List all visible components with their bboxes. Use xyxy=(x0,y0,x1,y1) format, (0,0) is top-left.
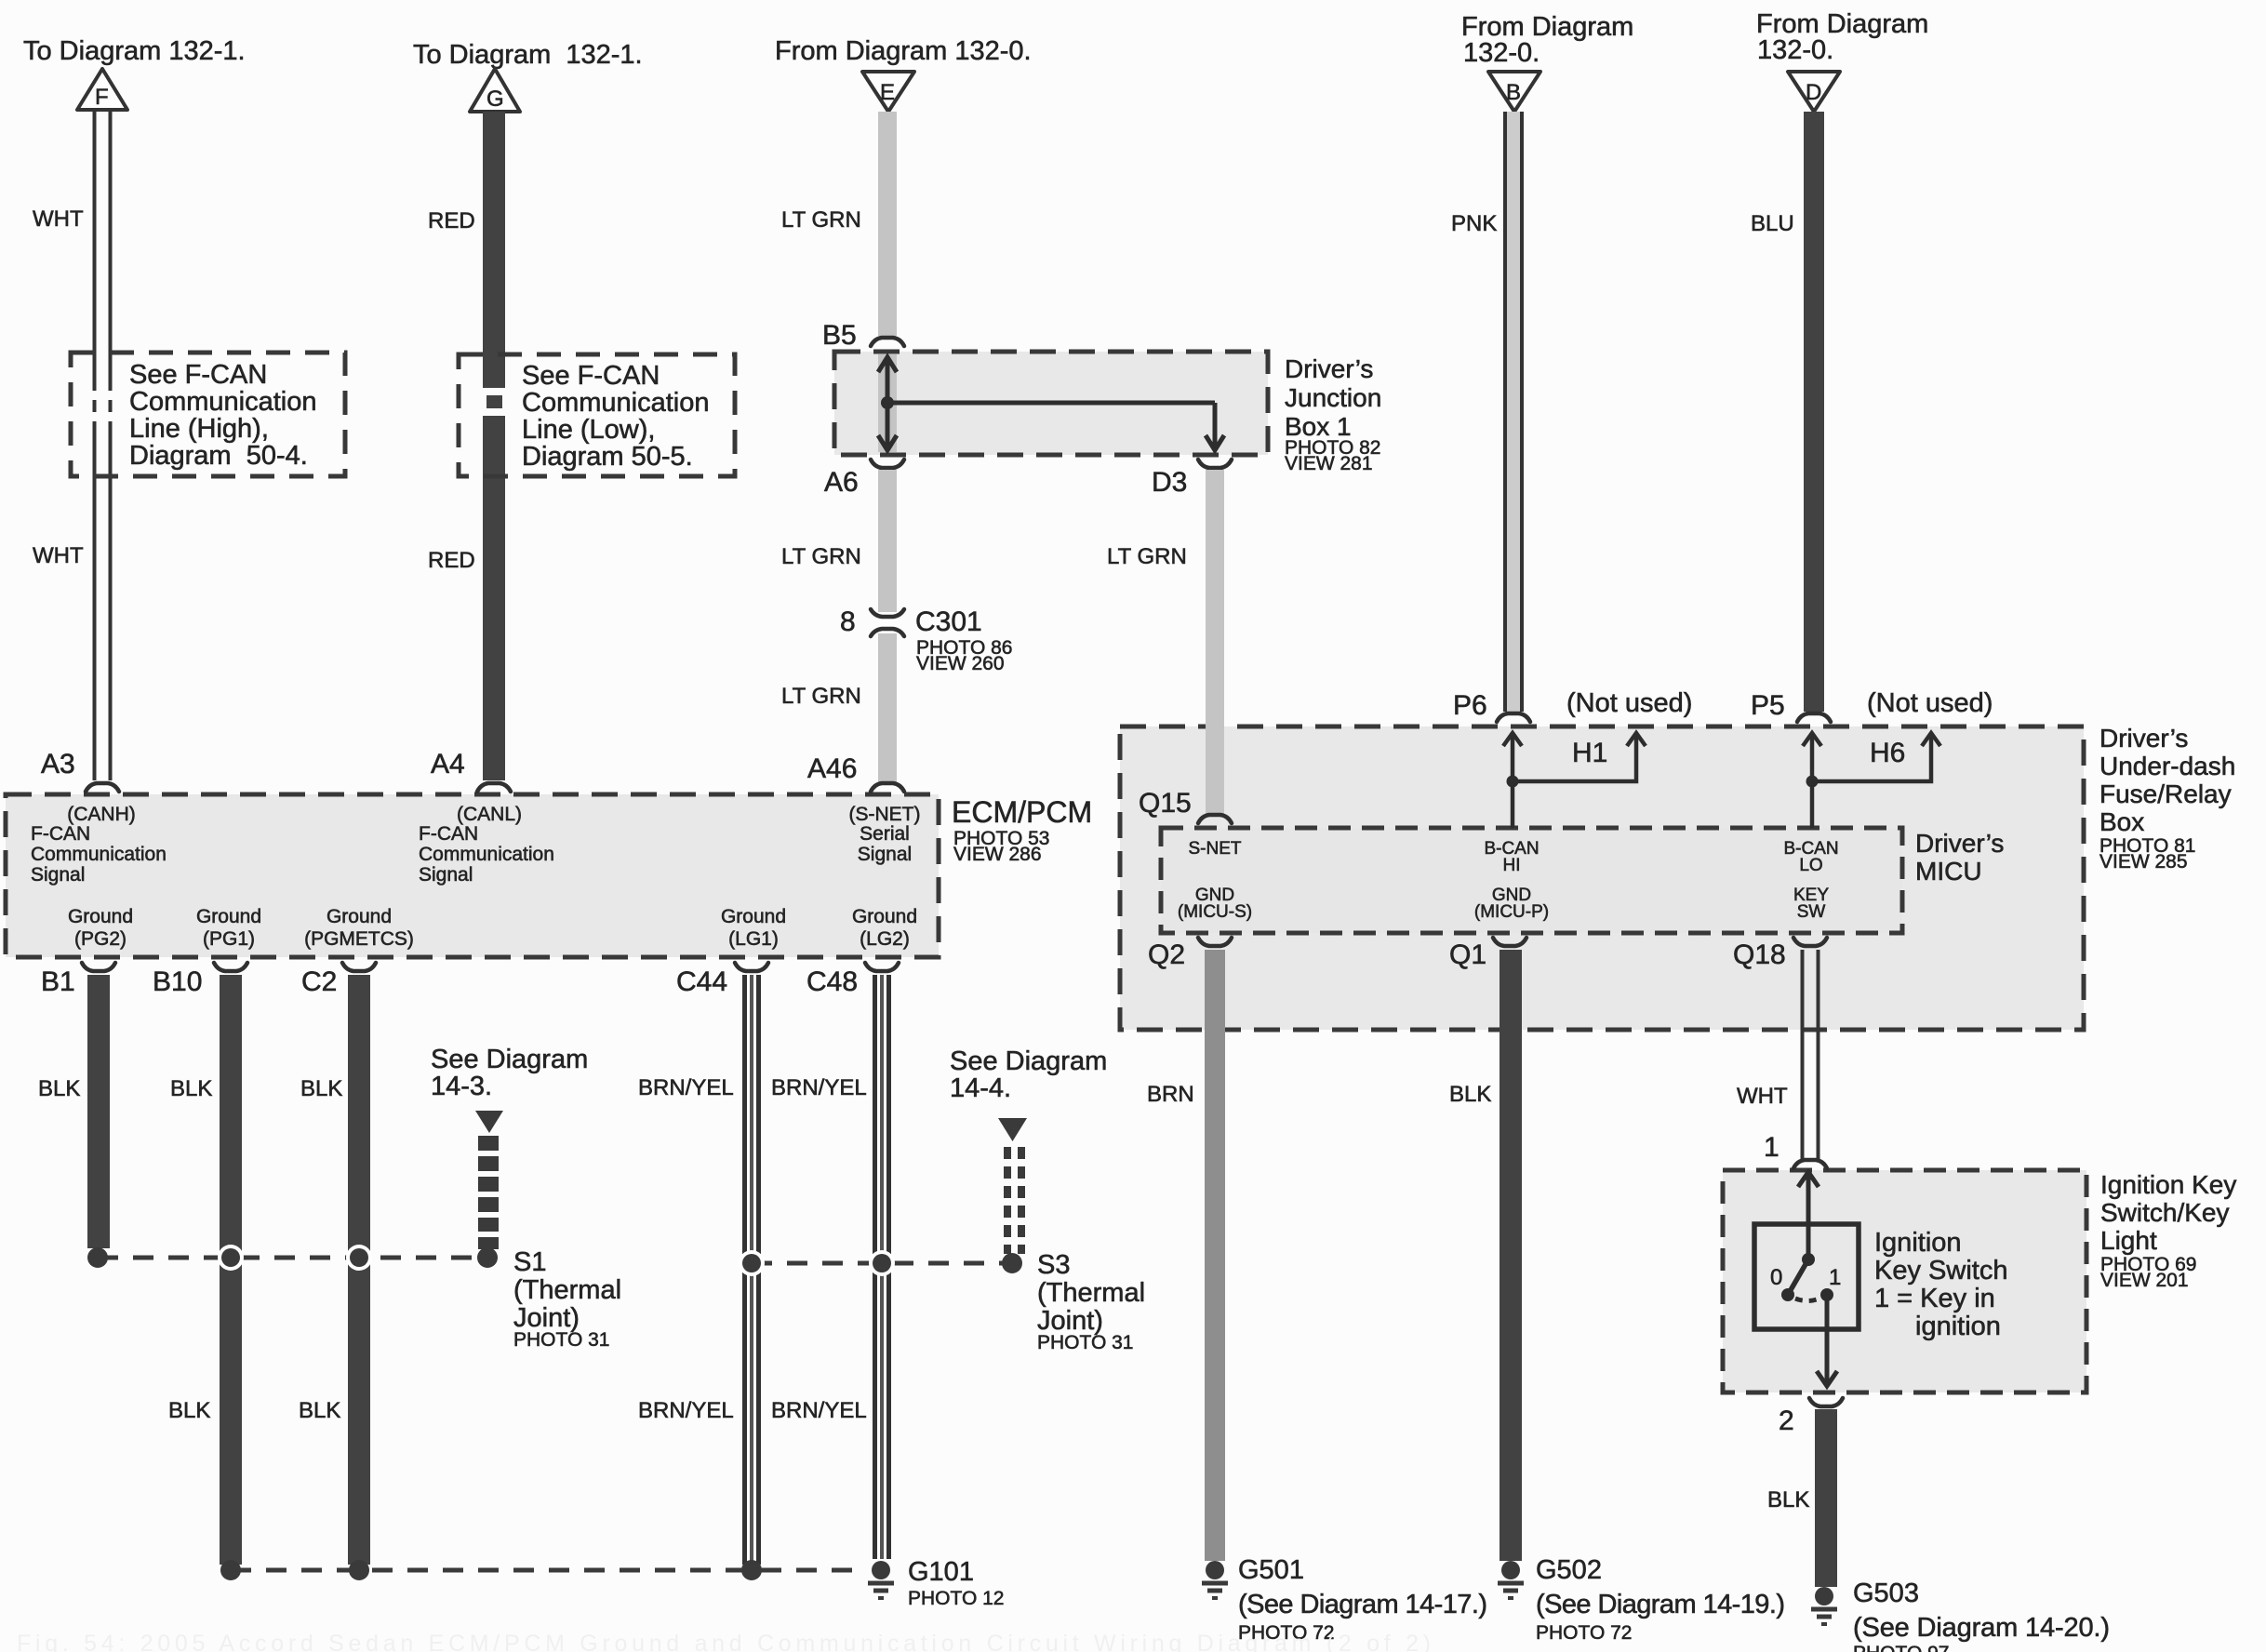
svg-text:Q15: Q15 xyxy=(1139,788,1192,819)
svg-text:(MICU-P): (MICU-P) xyxy=(1474,902,1549,922)
svg-text:WHT: WHT xyxy=(33,543,84,568)
ECM internal label Ground PGMETCS xyxy=(304,906,414,950)
pin A4 xyxy=(431,749,511,792)
pin B1 xyxy=(41,963,115,997)
svg-text:Driver’s: Driver’s xyxy=(2099,724,2188,753)
svg-text:C301: C301 xyxy=(915,606,982,637)
svg-text:A4: A4 xyxy=(431,749,465,779)
pin 1 (ignition) xyxy=(1764,1132,1827,1168)
svg-text:SW: SW xyxy=(1797,902,1826,922)
svg-text:Ground: Ground xyxy=(721,906,786,927)
svg-text:PHOTO 12: PHOTO 12 xyxy=(908,1588,1004,1609)
svg-text:P5: P5 xyxy=(1751,690,1785,721)
thermal joint S1 xyxy=(475,1111,621,1351)
svg-text:BRN: BRN xyxy=(1147,1082,1194,1107)
wire BLU D to P5 xyxy=(1751,112,1824,712)
svg-text:WHT: WHT xyxy=(33,206,84,232)
svg-text:BRN/YEL: BRN/YEL xyxy=(638,1398,734,1423)
connector B from Diagram 132-0 xyxy=(1461,12,1633,112)
svg-text:G503: G503 xyxy=(1853,1579,1919,1608)
wire LT GRN E to B5 xyxy=(781,112,897,336)
svg-text:Communication: Communication xyxy=(31,844,167,865)
svg-text:Communication: Communication xyxy=(129,387,316,417)
pin 2 (ignition) xyxy=(1779,1398,1843,1436)
svg-text:PHOTO 31: PHOTO 31 xyxy=(1037,1332,1133,1353)
svg-text:(Not used): (Not used) xyxy=(1566,688,1692,718)
svg-text:(PGMETCS): (PGMETCS) xyxy=(304,928,414,950)
svg-text:Communication: Communication xyxy=(522,388,709,418)
svg-text:ignition: ignition xyxy=(1915,1312,2001,1341)
connector C301 pin 8 xyxy=(840,606,1012,674)
svg-text:BLU: BLU xyxy=(1751,211,1794,236)
svg-text:Q2: Q2 xyxy=(1148,939,1185,970)
ECM internal label CANL xyxy=(419,804,554,886)
svg-text:F-CAN: F-CAN xyxy=(419,823,478,845)
svg-text:Signal: Signal xyxy=(419,864,473,886)
svg-text:Ground: Ground xyxy=(327,906,392,927)
pin C2 xyxy=(301,963,376,997)
svg-text:D: D xyxy=(1806,80,1821,105)
ECM internal label S-NET serial signal xyxy=(849,804,921,865)
connector G to Diagram 132-1 xyxy=(413,40,643,112)
svg-text:(PG1): (PG1) xyxy=(203,928,255,950)
svg-text:LT GRN: LT GRN xyxy=(781,544,861,569)
MICU internal label GND MICU-S xyxy=(1178,886,1252,922)
pin P5 xyxy=(1751,688,1993,722)
pin Q2 xyxy=(1148,938,1232,970)
wire RED G to A4 xyxy=(428,112,505,780)
wire BLK C2 xyxy=(299,975,370,1565)
svg-text:(MICU-S): (MICU-S) xyxy=(1178,902,1252,922)
svg-text:VIEW 285: VIEW 285 xyxy=(2099,851,2188,873)
svg-text:Signal: Signal xyxy=(858,844,912,865)
pin B10 xyxy=(153,963,247,997)
svg-text:1: 1 xyxy=(1764,1132,1779,1163)
svg-text:Fuse/Relay: Fuse/Relay xyxy=(2099,779,2232,808)
wire BRN/YEL C48 xyxy=(771,975,889,1559)
note F-CAN Communication Line (High) xyxy=(71,353,345,476)
svg-text:See F-CAN: See F-CAN xyxy=(522,361,660,391)
wire BRN Q2 to G501 xyxy=(1147,950,1225,1561)
ECM internal label Ground PG1 xyxy=(196,906,261,950)
ground G502 xyxy=(1498,1555,1785,1644)
svg-text:LT GRN: LT GRN xyxy=(1107,544,1187,569)
wire LT GRN D3 to Q15 xyxy=(1107,470,1224,814)
thermal joint S3 xyxy=(998,1118,1145,1353)
svg-text:H1: H1 xyxy=(1572,738,1607,768)
svg-text:8: 8 xyxy=(840,606,856,637)
svg-text:BLK: BLK xyxy=(1449,1082,1491,1107)
svg-text:Switch/Key: Switch/Key xyxy=(2100,1198,2230,1227)
svg-text:Communication: Communication xyxy=(419,844,554,865)
svg-text:VIEW 201: VIEW 201 xyxy=(2100,1270,2189,1291)
svg-text:Q18: Q18 xyxy=(1733,939,1786,970)
svg-text:Serial: Serial xyxy=(860,823,910,845)
svg-text:E: E xyxy=(880,80,895,105)
svg-text:(See Diagram 14-19.): (See Diagram 14-19.) xyxy=(1536,1590,1785,1619)
ground G101 xyxy=(868,1557,1004,1609)
svg-text:H6: H6 xyxy=(1870,738,1905,768)
wire WHT Q18 to ignition pin 1 xyxy=(1737,950,1819,1159)
ECM/PCM box xyxy=(6,794,1092,957)
ignition key switch xyxy=(1754,1172,2007,1386)
thermal joint S3 note: See Diagram 14-4. xyxy=(950,1046,1107,1103)
svg-text:B: B xyxy=(1506,80,1521,105)
svg-text:(CANL): (CANL) xyxy=(457,804,522,825)
pin A46 xyxy=(807,753,904,792)
svg-text:(See Diagram 14-20.): (See Diagram 14-20.) xyxy=(1853,1613,2110,1643)
svg-text:Q1: Q1 xyxy=(1449,939,1486,970)
MICU box: Driver's MICU xyxy=(1161,828,2004,933)
ground bus dashed G101 row xyxy=(220,1560,865,1580)
svg-text:A46: A46 xyxy=(807,753,857,784)
svg-text:WHT: WHT xyxy=(1737,1084,1788,1109)
svg-text:C44: C44 xyxy=(676,966,727,997)
MICU internal label B-CAN LO xyxy=(1783,839,1838,875)
svg-text:BRN/YEL: BRN/YEL xyxy=(771,1075,867,1100)
pin Q18 xyxy=(1733,938,1827,970)
svg-text:LT GRN: LT GRN xyxy=(781,684,861,709)
svg-text:G501: G501 xyxy=(1238,1555,1304,1585)
svg-text:132-0.: 132-0. xyxy=(1463,38,1540,68)
ECM internal label Ground PG2 xyxy=(68,906,133,950)
svg-text:LO: LO xyxy=(1799,856,1822,875)
svg-text:Junction: Junction xyxy=(1285,383,1381,412)
svg-text:Diagram 50-5.: Diagram 50-5. xyxy=(522,442,693,472)
svg-text:VIEW 281: VIEW 281 xyxy=(1285,453,1373,474)
svg-text:Light: Light xyxy=(2100,1226,2157,1255)
svg-text:To Diagram 132-1.: To Diagram 132-1. xyxy=(413,40,643,70)
svg-text:Box: Box xyxy=(2099,807,2144,836)
svg-text:BLK: BLK xyxy=(38,1076,80,1101)
svg-text:PHOTO 97: PHOTO 97 xyxy=(1853,1643,1949,1652)
svg-text:BLK: BLK xyxy=(170,1076,212,1101)
svg-text:B10: B10 xyxy=(153,966,202,997)
ECM internal label Ground LG2 xyxy=(852,906,917,950)
svg-text:B1: B1 xyxy=(41,966,75,997)
wire LT GRN C301 to A46 xyxy=(781,633,897,784)
pin A6 xyxy=(824,460,904,498)
ignition box: Ignition Key Switch/Key Light xyxy=(1723,1170,2236,1392)
svg-text:BLK: BLK xyxy=(300,1076,342,1101)
svg-text:Line (High),: Line (High), xyxy=(129,414,269,444)
thermal joint S1 note: See Diagram 14-3. xyxy=(431,1045,588,1101)
net H6 arrows xyxy=(1803,733,1940,828)
svg-text:RED: RED xyxy=(428,548,475,573)
svg-text:See Diagram: See Diagram xyxy=(431,1045,588,1074)
connector E from Diagram 132-0 xyxy=(775,36,1032,112)
svg-text:(S-NET): (S-NET) xyxy=(849,804,921,825)
pin C48 xyxy=(806,963,899,997)
svg-text:BRN/YEL: BRN/YEL xyxy=(638,1075,734,1100)
svg-text:ECM/PCM: ECM/PCM xyxy=(952,795,1092,829)
svg-text:PHOTO 31: PHOTO 31 xyxy=(513,1329,609,1351)
svg-text:S-NET: S-NET xyxy=(1189,839,1242,859)
connector D from Diagram 132-0 xyxy=(1756,9,1928,112)
net H1 arrows xyxy=(1503,733,1646,828)
svg-text:A3: A3 xyxy=(41,749,75,779)
svg-text:Ignition: Ignition xyxy=(1874,1228,1962,1258)
svg-text:See Diagram: See Diagram xyxy=(950,1046,1107,1076)
svg-text:PNK: PNK xyxy=(1451,211,1497,236)
ground G501 xyxy=(1202,1555,1487,1644)
wire LT GRN A6 to C301 xyxy=(781,470,897,612)
svg-text:Driver’s: Driver’s xyxy=(1285,354,1373,383)
junction box: Driver's Junction Box 1 xyxy=(834,352,1381,474)
ground G503 xyxy=(1811,1579,2110,1652)
svg-text:C48: C48 xyxy=(806,966,858,997)
svg-text:1: 1 xyxy=(1829,1265,1841,1290)
svg-text:F: F xyxy=(95,85,109,110)
wire BRN/YEL C44 xyxy=(638,975,759,1565)
svg-text:Diagram 50-4.: Diagram 50-4. xyxy=(129,441,308,471)
MICU internal label B-CAN HI xyxy=(1484,839,1539,875)
svg-text:P6: P6 xyxy=(1453,690,1487,721)
svg-text:Driver’s: Driver’s xyxy=(1915,829,2004,858)
connector F to Diagram 132-1 xyxy=(23,36,246,110)
ground bus dashed S1 row xyxy=(87,1245,498,1271)
ECM internal label CANH xyxy=(31,804,167,886)
pin Q15 xyxy=(1139,788,1232,823)
svg-text:(See Diagram 14-17.): (See Diagram 14-17.) xyxy=(1238,1590,1487,1619)
svg-text:BLK: BLK xyxy=(299,1398,340,1423)
svg-text:From Diagram 132-0.: From Diagram 132-0. xyxy=(775,36,1032,66)
svg-text:(CANH): (CANH) xyxy=(67,804,136,825)
svg-text:S3: S3 xyxy=(1037,1250,1070,1280)
MICU internal label GND MICU-P xyxy=(1474,886,1549,922)
pin B5 xyxy=(822,320,904,351)
svg-text:F-CAN: F-CAN xyxy=(31,823,90,845)
pin D3 xyxy=(1152,460,1232,498)
svg-text:(LG2): (LG2) xyxy=(860,928,910,950)
wire BLK B1 xyxy=(38,975,110,1248)
wire BLK ignition pin 2 to G503 xyxy=(1767,1409,1837,1587)
svg-text:Ground: Ground xyxy=(68,906,133,927)
svg-text:14-3.: 14-3. xyxy=(431,1072,492,1101)
svg-text:A6: A6 xyxy=(824,467,859,498)
svg-text:Ground: Ground xyxy=(852,906,917,927)
svg-text:D3: D3 xyxy=(1152,467,1187,498)
wire BLK Q1 to G502 xyxy=(1449,950,1522,1561)
svg-text:G502: G502 xyxy=(1536,1555,1602,1585)
svg-text:S1: S1 xyxy=(513,1247,546,1277)
svg-text:G: G xyxy=(487,87,504,112)
svg-text:(PG2): (PG2) xyxy=(74,928,127,950)
svg-text:VIEW 260: VIEW 260 xyxy=(916,653,1005,674)
svg-text:B5: B5 xyxy=(822,320,857,351)
svg-text:2: 2 xyxy=(1779,1406,1794,1436)
pin Q1 xyxy=(1449,938,1526,970)
svg-text:MICU: MICU xyxy=(1915,857,1982,886)
svg-text:VIEW 286: VIEW 286 xyxy=(953,844,1042,865)
svg-text:RED: RED xyxy=(428,208,475,233)
MICU internal label KEY SW xyxy=(1793,886,1829,922)
ECM internal label Ground LG1 xyxy=(721,906,786,950)
svg-text:BLK: BLK xyxy=(1767,1487,1809,1512)
wire BLK B10 xyxy=(168,975,242,1565)
svg-text:(Thermal: (Thermal xyxy=(513,1275,621,1305)
svg-text:(Not used): (Not used) xyxy=(1867,688,1993,718)
svg-text:(Thermal: (Thermal xyxy=(1037,1278,1145,1308)
svg-text:C2: C2 xyxy=(301,966,337,997)
svg-text:LT GRN: LT GRN xyxy=(781,207,861,233)
ground bus dashed S3 row xyxy=(739,1250,1022,1276)
svg-text:(LG1): (LG1) xyxy=(728,928,779,950)
pin A3 xyxy=(41,749,119,792)
svg-text:Line (Low),: Line (Low), xyxy=(522,415,655,445)
pin C44 xyxy=(676,963,768,997)
wire PNK B to P6 xyxy=(1451,112,1524,712)
svg-text:14-4.: 14-4. xyxy=(950,1073,1011,1103)
fuse box: Driver's Under-dash Fuse/Relay Box xyxy=(1120,724,2235,1030)
svg-text:BLK: BLK xyxy=(168,1398,210,1423)
svg-text:Ignition Key: Ignition Key xyxy=(2100,1170,2236,1199)
svg-text:BRN/YEL: BRN/YEL xyxy=(771,1398,867,1423)
svg-text:Signal: Signal xyxy=(31,864,85,886)
svg-text:Ground: Ground xyxy=(196,906,261,927)
svg-text:G101: G101 xyxy=(908,1557,974,1587)
svg-text:Under-dash: Under-dash xyxy=(2099,752,2235,780)
svg-text:Fig. 54: 2005 Accord Sedan ECM: Fig. 54: 2005 Accord Sedan ECM/PCM Groun… xyxy=(17,1631,1431,1652)
svg-text:Key Switch: Key Switch xyxy=(1874,1256,2007,1286)
svg-text:See F-CAN: See F-CAN xyxy=(129,360,267,390)
wire WHT F to A3 xyxy=(33,110,111,780)
pin P6 xyxy=(1453,688,1692,722)
svg-text:PHOTO 72: PHOTO 72 xyxy=(1536,1622,1632,1644)
svg-text:1 = Key in: 1 = Key in xyxy=(1874,1284,1995,1313)
svg-text:To Diagram 132-1.: To Diagram 132-1. xyxy=(23,36,246,66)
junction box internal bus wire xyxy=(878,354,1224,452)
svg-text:0: 0 xyxy=(1770,1265,1782,1290)
svg-text:HI: HI xyxy=(1503,856,1521,875)
note F-CAN Communication Line (Low) xyxy=(459,354,735,476)
svg-text:132-0.: 132-0. xyxy=(1757,35,1833,65)
